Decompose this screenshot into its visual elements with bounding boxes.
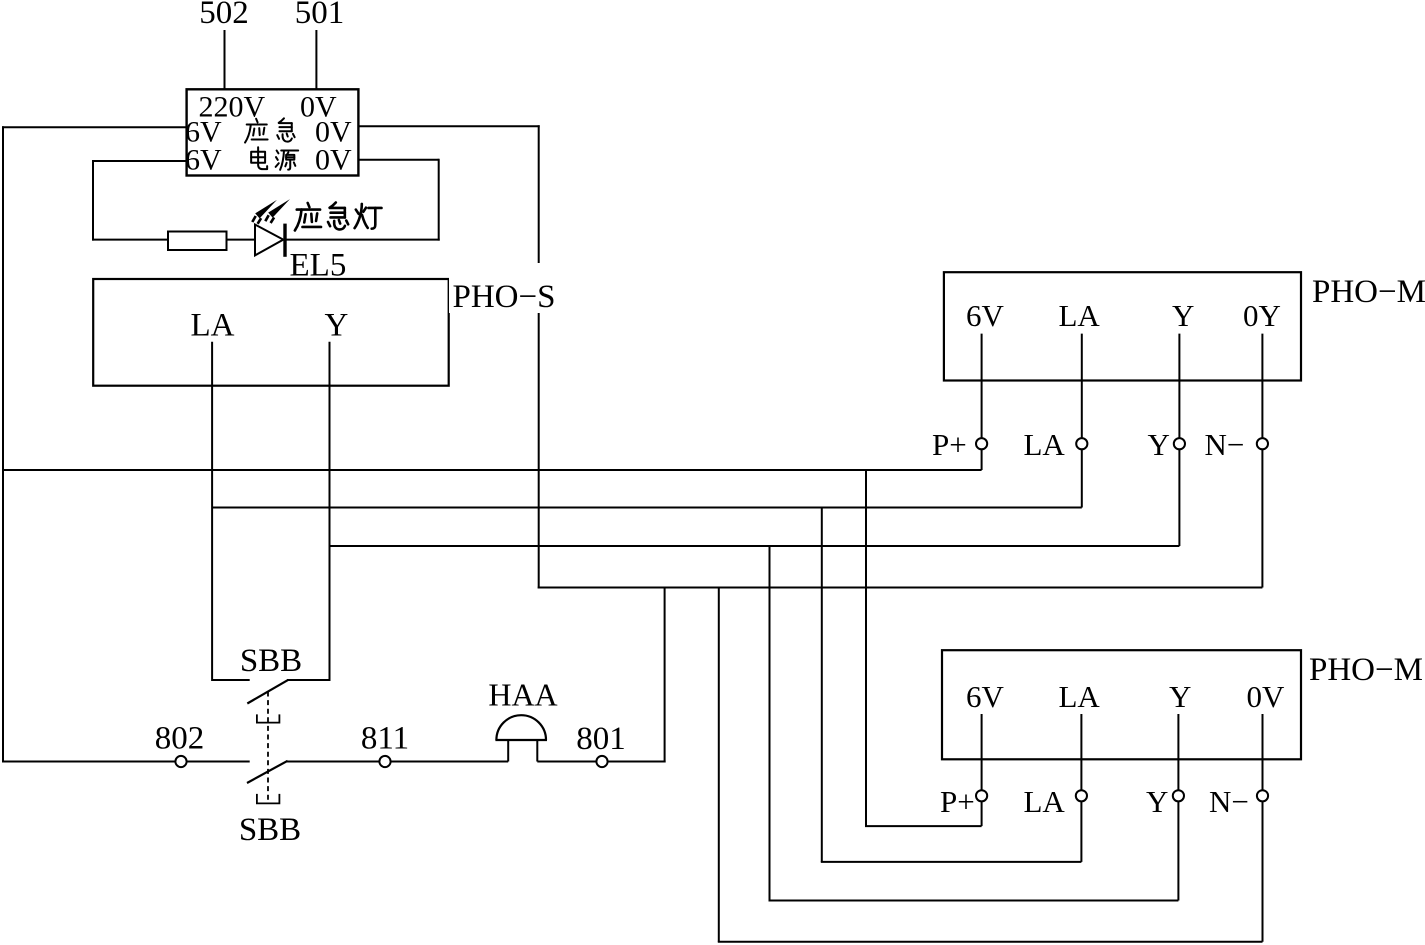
- svg-text:501: 501: [295, 0, 345, 31]
- svg-text:LA: LA: [1059, 679, 1101, 714]
- svg-text:PHO−S: PHO−S: [453, 279, 556, 315]
- svg-text:LA: LA: [191, 308, 235, 344]
- svg-text:0V: 0V: [1247, 679, 1286, 714]
- svg-text:HAA: HAA: [488, 677, 557, 713]
- svg-text:502: 502: [199, 0, 249, 31]
- svg-text:0Y: 0Y: [1243, 298, 1281, 333]
- svg-text:Y: Y: [1148, 427, 1170, 462]
- svg-text:Y: Y: [1146, 784, 1168, 819]
- svg-text:Y: Y: [1172, 298, 1194, 333]
- svg-text:PHO−M: PHO−M: [1309, 652, 1423, 688]
- svg-text:P+: P+: [932, 427, 967, 462]
- svg-text:SBB: SBB: [239, 812, 301, 848]
- svg-text:SBB: SBB: [240, 643, 302, 679]
- svg-text:6V: 6V: [185, 144, 222, 177]
- svg-text:6V: 6V: [966, 679, 1005, 714]
- svg-text:PHO−M: PHO−M: [1312, 274, 1425, 310]
- svg-text:801: 801: [576, 721, 626, 757]
- svg-text:0V: 0V: [315, 144, 352, 177]
- svg-text:811: 811: [361, 721, 409, 757]
- svg-text:LA: LA: [1059, 298, 1101, 333]
- svg-text:P+: P+: [940, 784, 975, 819]
- svg-text:EL5: EL5: [290, 248, 347, 284]
- svg-text:6V: 6V: [966, 298, 1005, 333]
- svg-text:LA: LA: [1024, 427, 1066, 462]
- svg-text:LA: LA: [1024, 784, 1066, 819]
- svg-text:802: 802: [155, 721, 205, 757]
- svg-text:N−: N−: [1209, 784, 1249, 819]
- svg-text:Y: Y: [325, 308, 349, 344]
- svg-text:Y: Y: [1169, 679, 1191, 714]
- svg-text:N−: N−: [1205, 427, 1245, 462]
